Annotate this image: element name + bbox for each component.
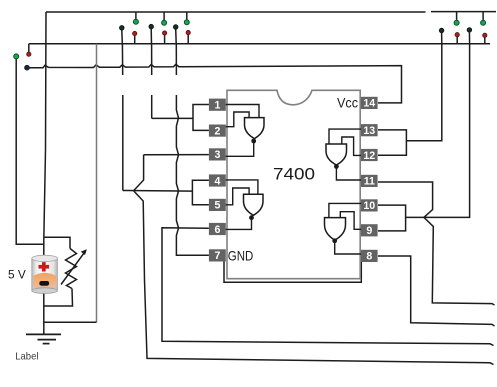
wire V2: black dot 2 down to pins 1/2 feed <box>150 28 153 118</box>
wire V3: black dot 3 down to pin 7 <box>176 29 209 256</box>
wire green probe line to battery + <box>16 59 44 244</box>
wire gate U1D output to pin 8 <box>335 242 362 255</box>
wire pins 4/5 tie bracket <box>192 180 209 204</box>
svg-text:1: 1 <box>214 100 220 112</box>
wire pin 9 to gate U1D input <box>340 212 361 230</box>
wire pin 4 to gate U1B input <box>226 180 258 194</box>
pin 2 <box>209 125 226 138</box>
wire green dot stems top-left <box>135 12 137 20</box>
pin 11 <box>361 175 378 188</box>
svg-text:7400: 7400 <box>273 164 315 183</box>
svg-text:11: 11 <box>364 176 375 188</box>
wire pin 5 to gate U1B input <box>226 188 250 205</box>
wire feed to pins 1/2 bracket <box>152 117 193 119</box>
internal gate wiring <box>226 105 362 255</box>
wire pin 6 to bottom rail <box>162 228 494 346</box>
pin 12 <box>361 149 378 162</box>
svg-text:5 V: 5 V <box>8 268 27 282</box>
op-amp U1A NAND gate 1 <box>245 118 265 144</box>
svg-text:Label: Label <box>15 351 38 363</box>
svg-text:7: 7 <box>214 250 220 262</box>
pin 13 <box>361 124 378 137</box>
wire bus B (ground rail) <box>29 43 490 45</box>
op-amp U1D NAND gate 4 <box>325 218 346 244</box>
svg-text:Vcc: Vcc <box>337 96 358 111</box>
svg-text:5: 5 <box>214 200 220 212</box>
pin boxes <box>209 97 378 263</box>
wire pin 3 lead <box>144 154 209 156</box>
wire bus A (+V top rail) <box>46 11 496 13</box>
svg-text:2: 2 <box>214 125 220 137</box>
svg-text:12: 12 <box>363 150 375 162</box>
pin 3 <box>209 148 226 161</box>
potentiometer arrow <box>61 249 87 284</box>
wire V1: black dot 1 down to H1 feed <box>122 30 123 191</box>
wire red dot stems top-right <box>456 37 458 44</box>
wire pins 10/9 tie bracket <box>378 205 406 231</box>
wire gate U1C output to pin 11 <box>336 168 361 180</box>
battery BT1 5V <box>32 255 58 293</box>
pin 8 <box>361 250 378 263</box>
wire pin 10 to gate U1D input <box>329 203 362 217</box>
wire pin 11 to right edge <box>378 182 495 305</box>
svg-text:13: 13 <box>363 125 375 137</box>
wire bus C (Vcc feed to pin 14) <box>27 64 402 103</box>
wire gate U1B output to pin 6 <box>226 219 252 229</box>
stems of indicator dots <box>29 12 485 53</box>
wire red dot stems top-left <box>134 36 136 44</box>
pin 6 <box>209 223 226 236</box>
wire potentiometer top lead <box>44 237 70 248</box>
pin 7 <box>209 249 226 262</box>
pin 14 <box>361 97 378 110</box>
wire pin 12 to gate U1C input <box>342 137 362 155</box>
battery plus mark <box>39 262 50 271</box>
resistor R1 potentiometer zigzag <box>66 249 77 289</box>
wire pin 8 to right edge <box>378 256 495 326</box>
wire pins 1/2 tie bracket <box>193 105 209 131</box>
svg-text:3: 3 <box>214 149 220 161</box>
wire right black dot 2 to pins 10/9 <box>406 32 470 218</box>
wire right black dot 1 to pins 13/12 <box>406 32 441 141</box>
wire pin 7 / pin 8 tie loop <box>224 261 361 282</box>
svg-text:4: 4 <box>214 175 220 187</box>
svg-text:6: 6 <box>214 224 220 236</box>
ground symbol <box>26 334 61 343</box>
svg-text:9: 9 <box>366 225 372 237</box>
svg-text:GND: GND <box>228 247 254 263</box>
wire gray vertical bus B to ground node <box>96 44 98 323</box>
wire battery negative stem <box>43 292 45 334</box>
wire green dot stems top-right <box>456 12 458 21</box>
svg-text:10: 10 <box>363 200 375 212</box>
pin 10 <box>361 199 378 212</box>
op-amp U1C NAND gate 3 <box>326 144 347 169</box>
wire H1: feed to pins 4/5 bracket <box>123 190 193 193</box>
wire red dot stem far-left <box>28 44 30 52</box>
op-amp U1B NAND gate 2 <box>244 194 264 220</box>
pin 4 <box>209 174 226 187</box>
wire +V vertical to battery + <box>44 12 46 256</box>
pin 5 <box>209 199 226 212</box>
wire pins 13/12 tie bracket <box>378 130 406 155</box>
pin 9 <box>361 224 378 237</box>
svg-text:8: 8 <box>366 251 372 263</box>
svg-text:14: 14 <box>363 98 375 110</box>
pin 1 <box>209 99 226 112</box>
wire pin 13 to gate U1C input <box>329 129 362 144</box>
wire pin 2 to gate U1A input <box>226 112 250 127</box>
node black dots <box>120 24 472 32</box>
wire gate U1A output to pin 3 <box>226 141 254 156</box>
wire pin 1 to gate U1A input <box>226 105 260 118</box>
node red dots <box>27 30 487 56</box>
node far-left navy dot (Vcc bus tap) <box>25 65 30 70</box>
wire ground branch to gray vertical <box>44 321 97 323</box>
IC U1 7400 body <box>227 90 360 278</box>
wire pin 3 descending to bottom-right rail <box>134 155 494 365</box>
battery minus mark <box>39 281 49 286</box>
node green dots <box>14 19 486 59</box>
wire potentiometer bottom lead <box>44 289 73 307</box>
